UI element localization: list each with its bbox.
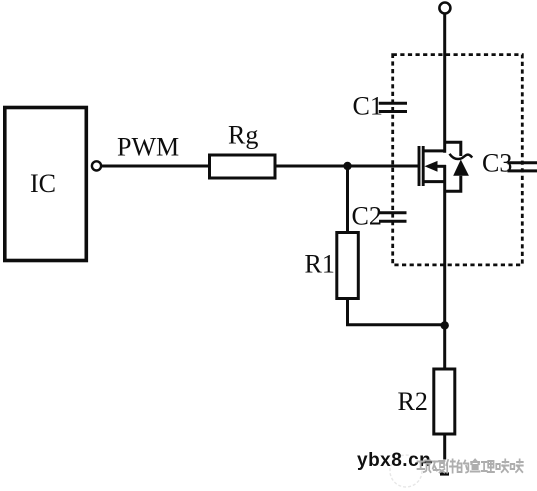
char 5 查 [471,460,480,472]
char 6 理 [482,461,494,472]
capacitor C1 plates [379,102,407,105]
svg-text:R1: R1 [305,250,335,279]
char 2 硬 [432,461,444,473]
transistor Q1 channel bar [422,146,425,186]
dashed package outline box [393,55,523,265]
wire: drain vertical [443,14,446,153]
char 4 的 [458,461,469,473]
capacitor C2 plates [379,211,407,214]
svg-text:R2: R2 [398,387,428,416]
svg-text:Rg: Rg [228,121,258,150]
char 7 吱 [496,460,508,473]
transistor Q1 source stub [424,180,446,183]
wire: R2 bottom [443,434,446,460]
resistor Rg [210,155,276,178]
svg-text:C2: C2 [352,202,382,231]
node: gate junction [343,162,351,170]
body diode bottom wire [445,176,461,191]
terminal: bottom bar [440,472,449,475]
watermark dash [422,461,433,464]
wire: IC pin to Rg [101,165,209,168]
terminal: top drain circle [439,3,450,14]
body diode triangle [453,160,469,176]
body diode top wire [445,142,461,156]
transistor Q1 body arrow [425,161,438,172]
wire: junction down to R1 [346,166,349,233]
resistor R2 [434,369,455,434]
capacitor C3 plates [508,161,537,164]
svg-text:PWM: PWM [117,133,179,162]
transistor Q1 drain stub [424,149,446,152]
svg-text:C1: C1 [353,92,383,121]
IC output pin circle [92,161,101,170]
watermark chinese strokes [418,460,523,473]
wire: Rg to gate [275,165,419,168]
char 1 玩 [418,461,431,473]
svg-text:C3: C3 [482,149,512,178]
wire: R1 bottom to source node [348,299,445,325]
body diode cathode curve [450,154,473,159]
svg-text:IC: IC [30,169,56,198]
wire: source vertical [443,165,446,370]
char 8 吱 [511,460,523,473]
node: source junction [441,321,449,329]
resistor R1 [337,233,359,299]
char 3 件 [446,460,456,473]
watermark faint circle [390,455,422,487]
transistor Q1 gate bar [418,146,421,186]
IC U1 box [5,108,87,261]
